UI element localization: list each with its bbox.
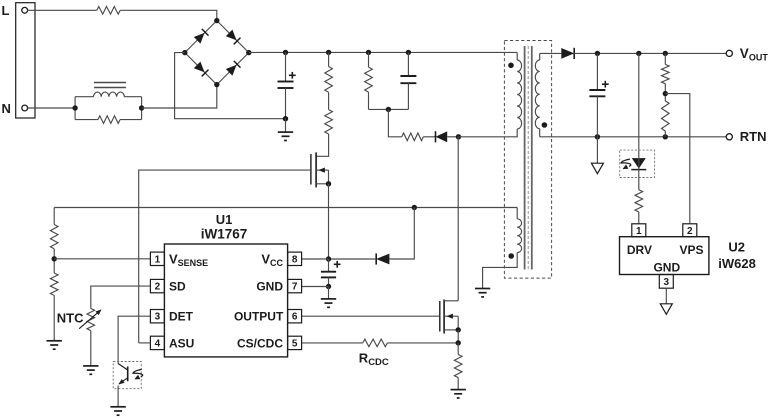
pin 6 box (288, 310, 302, 323)
svg-text:8: 8 (292, 254, 298, 265)
transistor Q2 body lead (444, 314, 458, 319)
bridge diode D4 (226, 61, 241, 76)
capacitor C2 snubber (400, 76, 416, 83)
pin 1 box U2 (632, 224, 646, 237)
wire LED to R9 (638, 170, 640, 190)
svg-text:N: N (2, 101, 11, 116)
resistor R8 sense (454, 355, 462, 378)
wire VPS tap to U2 pin2 (665, 94, 690, 224)
wire C4 to RTN (596, 96, 598, 137)
inductor LF1 core (94, 83, 126, 88)
wire CS node to R8 (457, 343, 459, 355)
bridge edge left-top (185, 21, 217, 53)
pin 2 box U2 (683, 224, 697, 237)
resistor R5 clamp (402, 133, 424, 141)
transistor Q2 gate bar (439, 301, 441, 332)
svg-text:2: 2 (155, 282, 161, 293)
ground primary (sense) (451, 390, 466, 398)
svg-text:GND: GND (653, 260, 680, 274)
transistor Q2 channel (443, 300, 445, 334)
pin 3 box (150, 310, 164, 323)
bridge diode D1 (194, 29, 209, 44)
bridge edge top-right (217, 21, 249, 53)
wire secondary to D7 (540, 52, 562, 54)
svg-text:GND: GND (256, 280, 283, 294)
svg-text:iW1767: iW1767 (201, 227, 248, 242)
node VOUT divider (663, 51, 668, 56)
resistor R10 divider upper (662, 64, 670, 83)
wire N to filter (28, 107, 76, 109)
node RTN cap (595, 134, 600, 139)
resistor R11 divider lower (662, 101, 670, 131)
svg-text:DET: DET (169, 310, 194, 324)
optocoupler transistor box (113, 362, 141, 389)
bridge diode D2 (226, 30, 241, 45)
node aux rail to VCC diode (412, 205, 417, 210)
diode D5 clamp (436, 131, 448, 142)
node bridge left (182, 50, 187, 55)
svg-text:3: 3 (155, 312, 161, 323)
light arrow into Q3 (133, 369, 143, 379)
wire Q1 source to VCC (328, 184, 330, 259)
wire R8 to ground (457, 378, 459, 390)
capacitor C3 VCC (321, 272, 336, 278)
label VCC (261, 252, 283, 269)
node VPS tap (663, 91, 668, 96)
wire VOUT rail (574, 52, 726, 54)
inductor LF1 (75, 92, 142, 97)
polarity + C1 (289, 72, 296, 79)
transistor Q2 source lead (444, 316, 458, 330)
svg-text:6: 6 (292, 312, 298, 323)
label U2 (728, 240, 745, 255)
svg-text:1: 1 (636, 226, 642, 237)
node Q2 source (456, 327, 461, 332)
wire snubber to clamp R (388, 109, 401, 136)
ground secondary (output) (591, 163, 603, 174)
wire R9 to U2 pin1 (638, 212, 640, 224)
node filter right (139, 105, 144, 110)
svg-text:1: 1 (155, 254, 161, 265)
wire RTN to sec ground (596, 137, 598, 163)
label DRV (627, 243, 652, 257)
wire L to fuse (28, 9, 97, 11)
capacitor C4 output (589, 90, 605, 96)
dot aux phase (508, 253, 514, 259)
transistor Q1 body lead (316, 168, 328, 173)
node CS (456, 340, 461, 345)
wire VOUT to C4 (596, 53, 598, 90)
op-amp U2 body (620, 237, 709, 275)
label VPS (679, 243, 703, 257)
resistor RF2 (75, 116, 142, 124)
wire bus to C1 (285, 52, 287, 81)
diode D7 output (561, 48, 574, 59)
wire D5 to switch node (447, 136, 458, 138)
op-amp U1 body (164, 244, 287, 357)
node bus snubber R (366, 50, 371, 55)
node bridge bottom (214, 82, 219, 87)
terminal VOUT (726, 50, 732, 56)
resistor R6 divider upper (50, 225, 58, 249)
filter right edge (141, 97, 143, 120)
svg-text:U1: U1 (216, 212, 233, 227)
node snubber (386, 107, 391, 112)
wire pin 6 to Q2 gate (302, 315, 440, 317)
ground primary (bulk) (278, 132, 293, 140)
wire bus to C2 (407, 52, 409, 76)
wire bridge DC-minus rail (175, 53, 286, 119)
pin 8 box (288, 252, 302, 265)
polarity + C4 (602, 81, 609, 88)
svg-text:5: 5 (292, 338, 298, 349)
terminal N (22, 105, 28, 111)
pin 1 box (150, 252, 164, 265)
wire Q2 source to CS node (457, 330, 459, 343)
svg-text:2: 2 (687, 226, 693, 237)
wire pin 4 to gate line (139, 342, 151, 344)
svg-text:VPS: VPS (679, 243, 703, 257)
wire RTN rail (540, 136, 727, 138)
light arrow from LED (621, 159, 631, 169)
wire node to ground (285, 119, 287, 132)
label GND U1 (256, 280, 283, 294)
node RTN divider (663, 134, 668, 139)
wire switch node to primary (459, 129, 518, 137)
wire aux sense rail (54, 207, 517, 209)
resistor R3 (325, 110, 333, 134)
node C1 bottom (283, 116, 288, 121)
wire R5 to D5 (423, 136, 435, 138)
svg-text:iW628: iW628 (718, 256, 756, 271)
pin 5 box (288, 336, 302, 349)
AC input connector J1 (16, 3, 35, 118)
wire R3 to Q1 drain (316, 134, 329, 156)
svg-text:CS/CDC: CS/CDC (237, 336, 283, 350)
node bridge top (214, 18, 219, 23)
label SD (169, 280, 186, 294)
dot secondary phase (542, 122, 548, 128)
wire Q3 emitter to ground (117, 386, 119, 407)
node bus snubber C (406, 50, 411, 55)
winding primary (517, 60, 521, 129)
resistor R7 divider lower (50, 273, 58, 295)
wire R10 to R11 (664, 84, 666, 101)
bridge edge left-bottom (185, 53, 217, 85)
wire RCDC to CS node (387, 342, 458, 344)
wire pin 8 to VCC node (302, 258, 329, 260)
optocoupler LED box (620, 150, 655, 177)
ground primary (VCC cap) (321, 299, 336, 307)
transistor Q1 source lead (316, 170, 328, 184)
ground secondary (U2) (660, 304, 672, 315)
label U1 (216, 212, 233, 227)
wire R2 to R3 (328, 92, 330, 109)
transformer core (525, 46, 532, 270)
wire VOUT to R10 (664, 53, 666, 64)
wire aux bottom to ground (483, 253, 518, 289)
wire aux top (516, 208, 518, 219)
wire U2 pin3 to ground (665, 288, 667, 304)
wire C3 to GND node (328, 277, 330, 286)
wire bus to R4 (368, 52, 370, 67)
node VOUT opto (636, 51, 641, 56)
wire rail corner to R6 (53, 208, 55, 225)
wire GND node to ground (328, 287, 330, 299)
pin 2 box (150, 279, 164, 292)
resistor R4 snubber (365, 67, 373, 92)
transistor Q1 gate bar (310, 154, 312, 185)
wire D6 to VCC node (330, 258, 377, 260)
pin 3 box U2 (659, 275, 673, 289)
node VCC (326, 256, 331, 261)
wire VOUT to opto LED (638, 53, 640, 152)
ground primary (opto) (110, 407, 125, 415)
terminal RTN (726, 134, 732, 140)
filter left edge (74, 97, 76, 120)
node Q1 source (326, 181, 331, 186)
wire pin 2 to NTC (91, 286, 151, 308)
winding secondary (535, 60, 539, 129)
capacitor C1 bulk (278, 82, 294, 89)
label VSENSE (169, 252, 208, 269)
wire C1 to DC-minus node (285, 88, 287, 119)
label RTN (740, 129, 767, 144)
wire pin 3 to opto (118, 316, 150, 363)
terminal L (22, 7, 28, 13)
wire R7 to ground (53, 295, 55, 340)
wire Q1 gate (139, 170, 311, 343)
label L (2, 3, 10, 18)
dot primary phase (508, 63, 514, 69)
node bus bulk cap (283, 50, 288, 55)
wire pin 5 to RCDC (302, 342, 363, 344)
wire Q2 drain up (457, 137, 459, 301)
label iW1767 (201, 227, 248, 242)
resistor R2 (325, 67, 333, 93)
svg-text:SD: SD (169, 280, 186, 294)
node switch (drain) (456, 134, 461, 139)
node VOUT cap (595, 51, 600, 56)
node bridge right (246, 50, 251, 55)
wire VCC node to C3 (328, 259, 330, 272)
label iW628 (718, 256, 756, 271)
transistor Q2 drain lead (444, 300, 458, 302)
svg-text:L: L (2, 3, 10, 18)
label OUTPUT (234, 310, 284, 324)
svg-text:7: 7 (292, 282, 298, 293)
wire snubber join (369, 108, 409, 110)
ground primary (divider) (47, 341, 62, 349)
wire NTC to ground (90, 331, 92, 366)
pin 4 box (150, 336, 164, 349)
wire bus to R2 (328, 52, 330, 66)
label N (2, 101, 11, 116)
polarity + C3 (334, 261, 341, 268)
wire secondary bottom to RTN (539, 129, 541, 137)
svg-text:3: 3 (664, 277, 670, 288)
node bus startup (326, 50, 331, 55)
label NTC (57, 311, 84, 326)
wire fuse to bridge top (120, 10, 217, 20)
bridge diode D3 (194, 62, 209, 77)
wire filter to bridge bottom (142, 85, 217, 108)
winding secondary lead top (539, 53, 541, 60)
wire R11 to RTN (664, 131, 666, 137)
thermistor NTC (79, 308, 102, 330)
label RCDC (359, 351, 389, 369)
LED D8 (631, 152, 646, 170)
wire R4 down (368, 92, 370, 109)
node filter left (72, 105, 77, 110)
wire VSENSE to pin 1 (54, 258, 151, 260)
label GND U2 (653, 260, 680, 274)
ground primary (NTC) (83, 366, 98, 374)
pin 7 box (288, 279, 302, 292)
wire R6 to R7 (53, 249, 55, 273)
svg-text:ASU: ASU (169, 336, 194, 350)
wire node down to D6 (389, 208, 414, 260)
transformer T1 dashed box (504, 41, 551, 279)
svg-text:NTC: NTC (57, 311, 84, 326)
svg-text:RTN: RTN (740, 129, 767, 144)
label ASU (169, 336, 194, 350)
label VOUT (740, 46, 768, 63)
node GND pin7 (326, 284, 331, 289)
bridge edge bottom-right (217, 53, 249, 85)
svg-text:U2: U2 (728, 240, 745, 255)
resistor R9 (635, 190, 643, 212)
ground primary (aux) (475, 289, 490, 297)
wire HV bus (249, 51, 517, 53)
winding auxiliary (517, 219, 521, 253)
transistor Q1 channel (315, 152, 317, 187)
label DET (169, 310, 194, 324)
wire C2 down (407, 83, 409, 109)
svg-text:OUTPUT: OUTPUT (234, 310, 284, 324)
node VSENSE divider (52, 256, 57, 261)
resistor RCDC (363, 339, 388, 347)
svg-text:DRV: DRV (627, 243, 652, 257)
wire pin 7 to GND node (302, 286, 329, 288)
phototransistor Q3 (118, 364, 128, 385)
resistor RF1 (fuse) (97, 7, 120, 15)
wire bus to primary top (516, 52, 518, 60)
label CS/CDC (237, 336, 283, 350)
svg-text:4: 4 (155, 338, 161, 349)
diode D6 VCC (376, 253, 389, 264)
